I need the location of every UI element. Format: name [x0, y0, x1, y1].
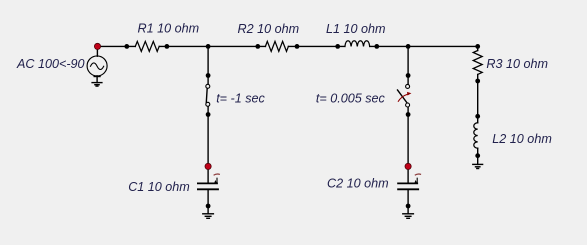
red node above C1: [205, 163, 211, 169]
switch S2 blade (open): [398, 90, 408, 103]
wire: R1 to R2: [159, 45, 265, 47]
wire: S2 to capacitor C2: [407, 107, 409, 182]
junction: L2 bottom terminal: [475, 153, 480, 158]
wire: corner to R3: [477, 46, 479, 50]
ground (under C1): [203, 213, 214, 215]
resistor R1: [135, 41, 159, 51]
switch S1 lower contact: [206, 102, 210, 106]
ground (under C2): [403, 213, 414, 215]
AC source V1: [96, 46, 98, 56]
junction: C1 bottom terminal: [206, 204, 211, 209]
svg-text:R2 10 ohm: R2 10 ohm: [238, 22, 300, 36]
junction: R2 right terminal: [295, 44, 300, 49]
C1 red dash: [214, 174, 220, 175]
resistor R3: [473, 51, 482, 75]
ground (right): [473, 163, 483, 165]
C2 red dash: [415, 174, 421, 175]
resistor R2: [265, 41, 288, 51]
switch S1 blade (closed): [205, 88, 208, 102]
svg-text:t= -1 sec: t= -1 sec: [216, 91, 265, 105]
node: top of C1 branch: [206, 44, 211, 49]
junction: L1 left terminal: [335, 44, 340, 49]
svg-text:AC 100<-90: AC 100<-90: [16, 57, 85, 71]
wire: L2 to ground: [477, 148, 479, 164]
junction: R1 right terminal: [165, 44, 170, 49]
junction: L2 top terminal: [475, 114, 480, 119]
svg-text:L2 10 ohm: L2 10 ohm: [492, 132, 552, 146]
capacitor C1: [198, 183, 218, 189]
wire: R3 to L2: [477, 75, 479, 123]
svg-text:L1 10 ohm: L1 10 ohm: [326, 22, 386, 36]
switch S1 upper contact: [206, 84, 210, 88]
switch S2 lower contact: [406, 103, 410, 107]
red node at source: [94, 43, 100, 49]
wire: source node to R1: [98, 45, 136, 47]
wire: L1 to right corner: [370, 45, 478, 47]
inductor L2: [474, 123, 478, 148]
inductor L1: [345, 41, 370, 47]
red node above C2: [405, 163, 411, 169]
svg-text:C1 10 ohm: C1 10 ohm: [128, 180, 190, 194]
C2 hook arrowhead: [415, 180, 418, 183]
ground (under source): [92, 82, 102, 84]
node: top of C2 branch: [406, 44, 411, 49]
junction: switch S2 bottom terminal: [406, 112, 411, 117]
wire: node to switch S1: [207, 46, 209, 84]
junction: switch S1 bottom terminal: [206, 112, 211, 117]
junction: switch S1 top terminal: [206, 73, 211, 78]
svg-text:R1 10 ohm: R1 10 ohm: [138, 21, 200, 35]
svg-text:C2 10 ohm: C2 10 ohm: [327, 177, 389, 191]
C1 hook arrowhead: [214, 180, 217, 183]
junction: L1 right terminal: [374, 44, 379, 49]
switch S2 upper contact: [406, 84, 410, 88]
wire: C2 to ground: [407, 189, 409, 214]
junction: R1 left terminal: [124, 44, 129, 49]
junction: C2 bottom terminal: [406, 204, 411, 209]
junction: top-right corner / R3 top: [475, 44, 480, 49]
wire: R2 to L1: [288, 45, 345, 47]
svg-text:R3 10 ohm: R3 10 ohm: [486, 57, 548, 71]
junction: R3 bottom terminal: [475, 79, 480, 84]
svg-text:t= 0.005 sec: t= 0.005 sec: [316, 92, 386, 106]
wire: S1 to capacitor C1: [207, 106, 209, 182]
junction: R2 left terminal: [255, 44, 260, 49]
capacitor C2: [398, 183, 418, 189]
junction: switch S2 top terminal: [406, 73, 411, 78]
S2 red action arrow: [398, 92, 411, 102]
wire: node to switch S2: [407, 46, 409, 84]
wire: C1 to ground: [207, 189, 209, 214]
